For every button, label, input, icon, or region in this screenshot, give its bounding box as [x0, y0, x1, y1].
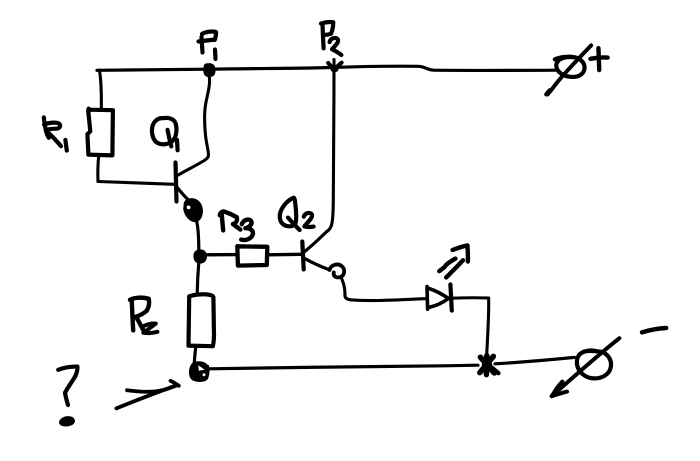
label Q2 — [280, 198, 314, 230]
transistor Q2 collector — [304, 232, 327, 253]
wire bottom rail left — [209, 365, 479, 369]
wire node A down to R2 — [197, 264, 199, 294]
positive terminal slash — [548, 45, 592, 94]
node A junction blob — [193, 249, 207, 263]
wire P2 drop to Q2 collector — [327, 60, 334, 232]
label P1 — [199, 32, 217, 59]
annotation arrow to junction — [116, 381, 178, 409]
transistor Q1 emitter — [177, 187, 190, 201]
wire R2 to bottom junction — [194, 347, 196, 362]
resistor R2 — [189, 294, 215, 346]
resistor R1 — [87, 109, 113, 156]
label R2 — [130, 298, 157, 333]
wire node A to R3 — [206, 253, 238, 257]
Q1 emitter arrow blob — [183, 198, 203, 222]
wire R1 bottom to Q1 base — [96, 156, 100, 182]
R2 bottom junction blob — [189, 361, 210, 382]
label R3 — [220, 211, 253, 240]
diode D1 (LED) — [425, 287, 429, 310]
Q2 emitter arrow loop — [330, 265, 345, 278]
wire Q2 emitter to LED — [341, 278, 426, 301]
node P2 X marks — [328, 63, 341, 69]
resistor R3 — [237, 246, 267, 265]
plus sign — [590, 57, 607, 58]
node P1 — [203, 63, 215, 77]
label P2 — [321, 22, 341, 55]
wire R3 to Q2 base — [268, 253, 302, 257]
negative terminal circle — [577, 351, 611, 379]
minus sign — [642, 328, 666, 332]
wire LED to corner down — [452, 296, 488, 300]
transistor Q2 emitter — [304, 258, 329, 270]
wire Q1 collector to P1 — [177, 75, 210, 176]
wire bottom rail right — [495, 357, 575, 363]
label Q1 — [152, 118, 178, 150]
LED arrows — [439, 245, 468, 277]
negative terminal arrow — [553, 338, 620, 395]
node B X junction — [480, 356, 494, 375]
transistor Q2 base bar — [302, 242, 303, 270]
wire left drop to R1 — [100, 70, 102, 108]
wire top rail — [97, 66, 557, 70]
question mark dot — [59, 416, 75, 426]
transistor Q1 base bar — [176, 163, 177, 202]
positive terminal circle — [556, 57, 584, 77]
wire Q1 emitter to node A — [197, 221, 199, 249]
label R1 — [44, 117, 67, 150]
question mark — [58, 367, 77, 405]
